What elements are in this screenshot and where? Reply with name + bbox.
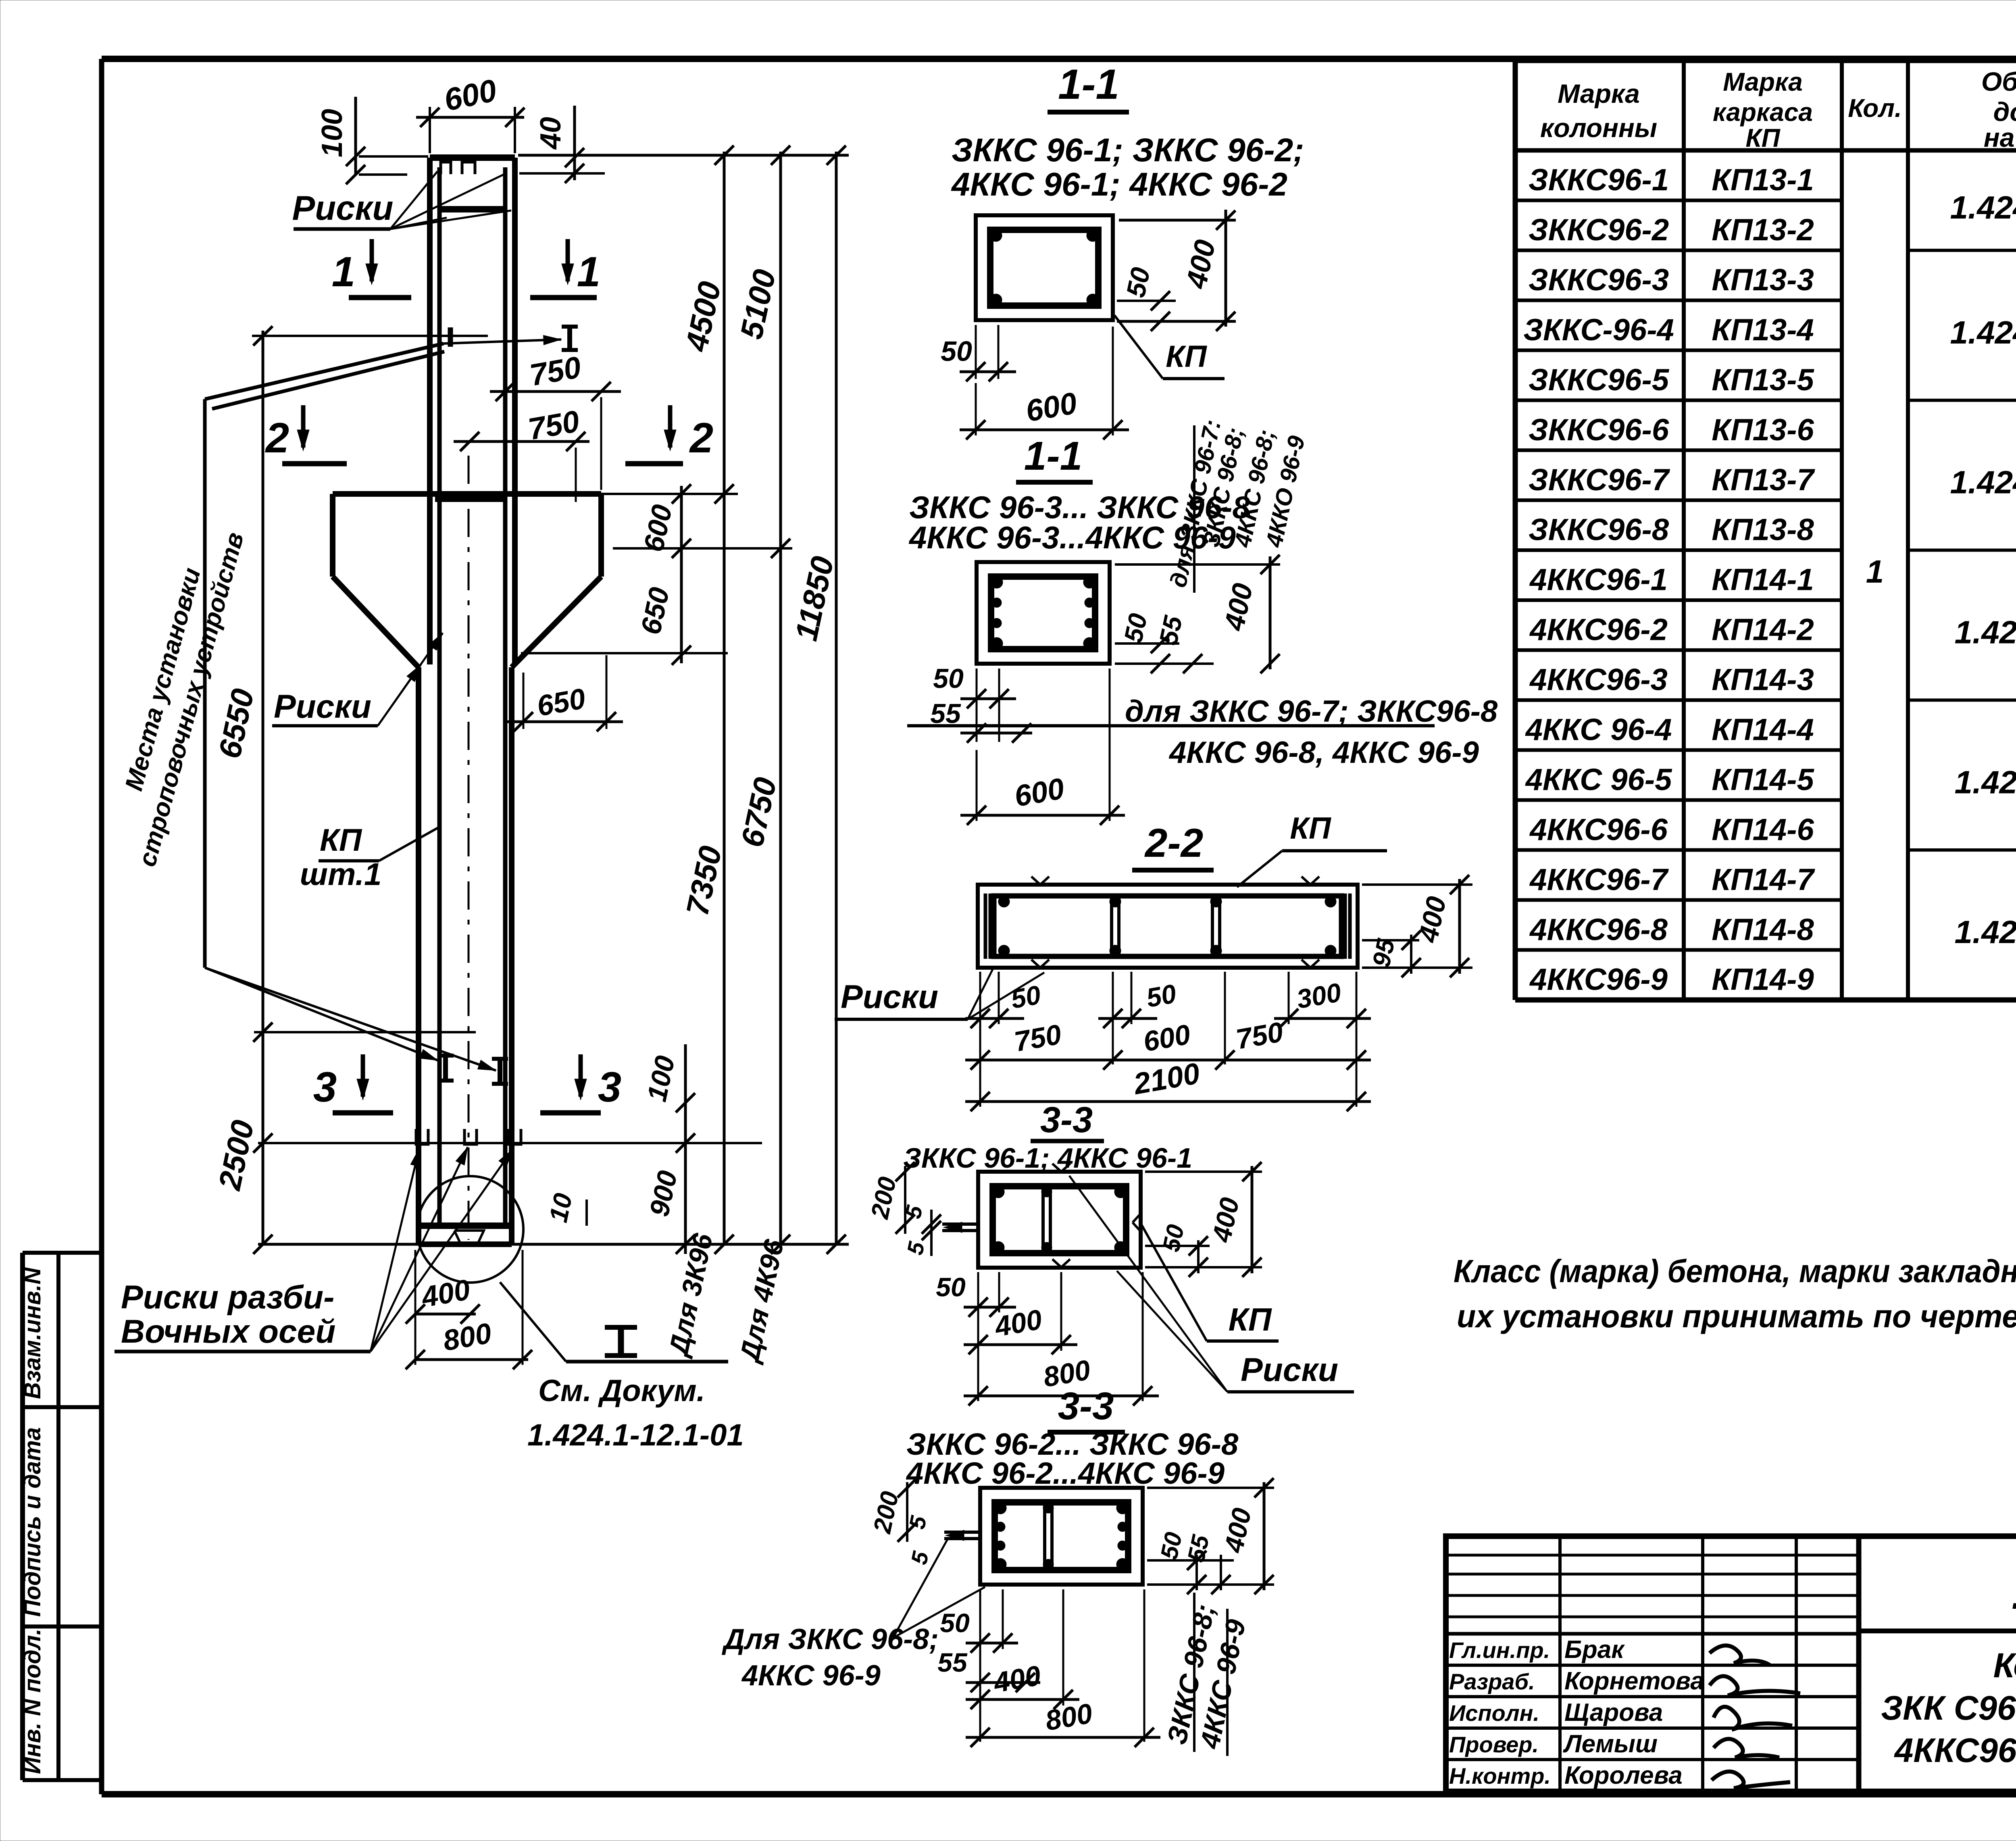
svg-text:ЗККС-96-4: ЗККС-96-4 [1523,313,1674,347]
svg-text:Исполн.: Исполн. [1449,1700,1539,1726]
svg-text:Марка: Марка [1723,67,1803,96]
svg-text:Колонна: Колонна [1993,1646,2016,1685]
svg-text:4ККС 96-4: 4ККС 96-4 [1525,713,1672,747]
svg-text:1.424.1-12.2-40: 1.424.1-12.2-40 [1955,914,2016,950]
svg-text:КП: КП [1166,339,1207,374]
svg-text:КП13-7: КП13-7 [1712,463,1815,497]
svg-text:ЗККС96-1: ЗККС96-1 [1529,163,1669,197]
svg-text:КП13-6: КП13-6 [1712,413,1814,447]
svg-text:Класс (марка) бетона, марки з: Класс (марка) бетона, марки закладных из… [1454,1253,2016,1289]
svg-text:шт.1: шт.1 [300,856,382,892]
svg-text:4ККС96-2: 4ККС96-2 [1529,613,1668,647]
svg-text:40: 40 [535,117,567,150]
svg-text:Лемыш: Лемыш [1563,1730,1658,1758]
svg-text:1.424.1-12.2-38: 1.424.1-12.2-38 [1955,614,2016,650]
svg-text:КП14-2: КП14-2 [1712,613,1814,647]
svg-text:50: 50 [1144,978,1178,1013]
svg-text:КП14-6: КП14-6 [1712,812,1814,847]
svg-text:Брак: Брак [1564,1636,1625,1664]
svg-text:Взам.инв.N: Взам.инв.N [19,1267,46,1399]
svg-text:ЗККС96-5: ЗККС96-5 [1529,363,1670,397]
svg-text:1.424.1-12.1-01: 1.424.1-12.1-01 [527,1418,744,1452]
svg-text:3-3: 3-3 [1058,1385,1114,1428]
svg-text:КП13-5: КП13-5 [1712,363,1814,397]
svg-text:Корнетова: Корнетова [1564,1667,1704,1695]
svg-text:1.424.1-12.2-39: 1.424.1-12.2-39 [1955,764,2016,800]
svg-text:1.424. 1-12.2-37: 1.424. 1-12.2-37 [1950,464,2016,500]
svg-text:КП13-3: КП13-3 [1712,263,1814,297]
svg-text:КП13-4: КП13-4 [1712,313,1814,347]
svg-text:Н.контр.: Н.контр. [1449,1763,1551,1789]
svg-text:4ККС 96-1; 4ККС 96-2: 4ККС 96-1; 4ККС 96-2 [951,166,1287,203]
svg-text:50: 50 [1120,264,1156,300]
svg-text:3: 3 [598,1064,621,1111]
svg-text:1.424. 1-12.2-35: 1.424. 1-12.2-35 [1950,190,2016,225]
svg-text:1: 1 [577,248,600,296]
svg-text:на каркас КП: на каркас КП [1984,123,2016,152]
svg-text:КП14-9: КП14-9 [1712,962,1814,997]
svg-text:КП14-3: КП14-3 [1712,663,1814,697]
svg-text:КП13-2: КП13-2 [1712,213,1814,247]
svg-text:2-2: 2-2 [1144,821,1204,866]
svg-text:Щарова: Щарова [1564,1699,1663,1726]
svg-text:Риски: Риски [1241,1352,1338,1388]
svg-text:Марка: Марка [1558,79,1640,108]
svg-text:ЗКК С96-1... ЗККС96-8;: ЗКК С96-1... ЗККС96-8; [1881,1689,2016,1727]
svg-text:КП13-1: КП13-1 [1712,163,1814,197]
svg-text:50: 50 [941,335,972,367]
svg-text:1: 1 [1866,554,1884,589]
svg-text:Королева: Королева [1564,1762,1683,1789]
svg-text:Разраб.: Разраб. [1449,1669,1535,1694]
svg-text:50: 50 [936,1272,966,1302]
svg-text:КП14-1: КП14-1 [1712,563,1814,597]
svg-text:КП14-5: КП14-5 [1712,762,1814,797]
svg-text:Риски разби-: Риски разби- [121,1279,334,1316]
svg-text:100: 100 [316,109,348,157]
svg-text:4ККС 96-2...4ККС 96-9: 4ККС 96-2...4ККС 96-9 [906,1456,1225,1491]
svg-text:50: 50 [1157,1222,1189,1254]
svg-text:ЗККС96-2: ЗККС96-2 [1529,213,1669,247]
svg-text:2: 2 [689,414,713,462]
svg-text:ЗККС 96-1; ЗККС 96-2;: ЗККС 96-1; ЗККС 96-2; [952,132,1304,169]
svg-text:50: 50 [933,663,964,694]
svg-text:КП14-4: КП14-4 [1712,713,1814,747]
svg-text:Риски: Риски [841,979,938,1015]
svg-text:КП: КП [1229,1302,1272,1337]
svg-text:Инв. N подл.: Инв. N подл. [19,1629,46,1774]
svg-text:колонны: колонны [1540,113,1657,143]
svg-text:1-1: 1-1 [1024,433,1083,479]
svg-text:ЗККС96-6: ЗККС96-6 [1529,413,1669,447]
svg-text:50: 50 [940,1608,970,1638]
svg-text:Вочных осей: Вочных осей [121,1313,335,1350]
svg-text:КП: КП [320,822,362,858]
svg-text:4ККС96-6: 4ККС96-6 [1529,812,1668,847]
svg-text:ЗККС96-3: ЗККС96-3 [1529,263,1669,297]
svg-text:55: 55 [937,1647,968,1677]
svg-text:3: 3 [313,1064,337,1111]
svg-text:Риски: Риски [274,688,371,725]
svg-text:Обозначение: Обозначение [1981,67,2016,96]
svg-text:документа: документа [1993,97,2016,127]
svg-text:ЗККС96-8: ЗККС96-8 [1529,513,1669,547]
svg-text:КП14-7: КП14-7 [1712,862,1815,897]
svg-text:4ККС 96-9: 4ККС 96-9 [741,1660,881,1692]
svg-text:Подпись и дата: Подпись и дата [19,1427,46,1617]
svg-text:Гл.ин.пр.: Гл.ин.пр. [1449,1637,1550,1663]
svg-text:Провер.: Провер. [1449,1732,1539,1757]
svg-text:их установки принимать по чер: их установки принимать по чертежам КЖИ п… [1457,1298,2016,1334]
svg-text:См. Докум.: См. Докум. [538,1374,705,1408]
svg-text:КП13-8: КП13-8 [1712,513,1814,547]
svg-text:Для ЗККС 96-8;: Для ЗККС 96-8; [721,1623,939,1656]
svg-text:3-3: 3-3 [1040,1100,1093,1140]
svg-text:50: 50 [1118,611,1153,645]
svg-text:каркаса: каркаса [1713,98,1813,127]
svg-text:ЗККС96-7: ЗККС96-7 [1529,463,1670,497]
svg-text:4ККС96-9: 4ККС96-9 [1529,962,1668,997]
svg-text:4ККС 96-5: 4ККС 96-5 [1525,762,1673,797]
svg-text:КП14-8: КП14-8 [1712,912,1814,947]
svg-text:КП: КП [1290,811,1331,846]
svg-text:4ККС96-1: 4ККС96-1 [1529,563,1668,597]
svg-text:КП: КП [1745,123,1781,152]
svg-text:4ККС96-8: 4ККС96-8 [1529,912,1668,947]
svg-text:ЗККС 96-1; 4ККС 96-1: ЗККС 96-1; 4ККС 96-1 [903,1142,1192,1174]
svg-text:Риски: Риски [292,189,394,227]
svg-text:2: 2 [265,414,289,462]
svg-text:для ЗККС 96-7; ЗККС96-8: для ЗККС 96-7; ЗККС96-8 [1125,694,1498,729]
svg-text:1.424. 1-12.2-36: 1.424. 1-12.2-36 [1950,314,2016,350]
svg-text:50: 50 [1008,979,1043,1014]
svg-text:4ККС96-3: 4ККС96-3 [1529,663,1668,697]
svg-text:1: 1 [332,248,355,296]
svg-text:1-1: 1-1 [1058,61,1119,108]
svg-text:Кол.: Кол. [1848,94,1902,123]
svg-text:4ККС96-7: 4ККС96-7 [1529,862,1669,897]
svg-text:1.424.1-12.1-09: 1.424.1-12.1-09 [2012,1564,2016,1619]
svg-text:4ККС 96-8, 4ККС 96-9: 4ККС 96-8, 4ККС 96-9 [1168,735,1479,770]
svg-text:4ККС96-1... 4ККС96-9: 4ККС96-1... 4ККС96-9 [1894,1731,2016,1769]
svg-text:10: 10 [544,1191,578,1225]
